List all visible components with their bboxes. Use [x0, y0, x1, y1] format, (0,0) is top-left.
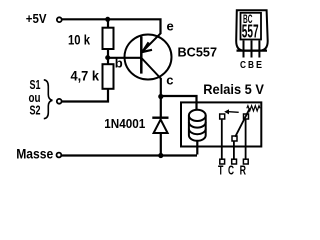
svg-text:R: R: [240, 164, 246, 178]
resistor R1 10k: [103, 28, 114, 49]
relay actuation arrow: [229, 111, 239, 114]
svg-text:4,7 k: 4,7 k: [71, 68, 100, 84]
svg-text:1N4001: 1N4001: [104, 116, 145, 131]
wire +5V rail: [62, 19, 161, 34]
svg-text:E: E: [256, 59, 262, 71]
relay contact pivot C square: [232, 136, 237, 141]
wire ground rail Masse: [62, 154, 198, 156]
svg-text:10 k: 10 k: [68, 31, 90, 47]
package legs: [244, 41, 260, 58]
wire diode to ground rail: [160, 134, 162, 156]
terminal +5V: [57, 17, 62, 22]
relay K1 box: [181, 102, 261, 146]
svg-text:B: B: [248, 59, 254, 71]
svg-text:C: C: [228, 164, 234, 178]
svg-text:BC557: BC557: [178, 45, 218, 60]
svg-text:T: T: [218, 164, 224, 178]
wire C lead: [233, 141, 235, 160]
wire 10k bottom lead to node: [107, 49, 109, 64]
node junction between resistors: [105, 55, 110, 60]
relay spring: [247, 106, 260, 111]
node junction on +5V rail: [105, 17, 110, 22]
terminal T square: [220, 159, 225, 164]
resistor R2 4.7k: [103, 64, 114, 89]
svg-text:Relais 5 V: Relais 5 V: [203, 82, 264, 97]
wire node to relay coil: [160, 96, 197, 110]
terminal C square: [232, 159, 237, 164]
svg-text:Masse: Masse: [16, 146, 53, 161]
transistor Q1 BC557 circle: [125, 35, 172, 80]
svg-text:c: c: [166, 73, 173, 88]
terminal R square: [243, 159, 248, 164]
transistor collector line: [142, 58, 161, 79]
wire 4.7k bottom lead to switch: [62, 89, 108, 102]
wire collector down to node and diode: [160, 78, 162, 117]
relay switch arm: [235, 108, 250, 137]
wire relay coil bottom lead: [196, 140, 198, 155]
node collector junction: [158, 94, 163, 99]
svg-text:S2: S2: [30, 104, 41, 118]
relay contact T square: [220, 114, 225, 119]
transistor base bar: [140, 36, 143, 73]
wire R lead: [245, 119, 247, 160]
svg-text:+5V: +5V: [26, 12, 47, 26]
wire 10k top lead: [107, 20, 109, 27]
package BC557 label window: [241, 13, 262, 40]
transistor emitter arrow (PNP): [142, 42, 152, 52]
brace for S1/S2: [44, 80, 53, 119]
wire base resistor node to transistor: [108, 57, 141, 59]
svg-text:b: b: [115, 56, 123, 71]
diode D1 triangle: [154, 120, 168, 134]
package collar: [237, 49, 268, 51]
transistor emitter line: [142, 33, 161, 53]
diode D1 1N4001 cathode bar: [152, 117, 168, 119]
package BC557 TO-92 body: [236, 10, 268, 50]
relay contact R square: [244, 114, 249, 119]
node ground junction: [158, 153, 163, 158]
terminal switch S1/S2: [57, 99, 62, 104]
terminal Masse: [57, 153, 62, 158]
svg-text:557: 557: [242, 21, 259, 41]
svg-text:e: e: [167, 18, 174, 33]
wire T lead: [221, 119, 223, 160]
svg-text:S1: S1: [30, 78, 41, 92]
svg-text:C: C: [240, 59, 246, 71]
relay coil: [189, 110, 206, 141]
